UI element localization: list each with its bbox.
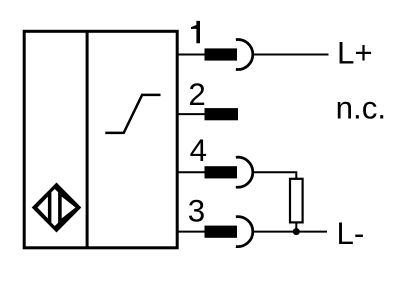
wire pin 1 to L+	[253, 54, 329, 56]
label n.c.	[336, 91, 386, 126]
svg-text:4: 4	[190, 133, 207, 168]
svg-text:L-: L-	[337, 216, 365, 251]
wire load resistor to junction	[295, 222, 297, 231]
load resistor	[290, 179, 303, 223]
inductive sensor symbol (diamond with target marks)	[32, 183, 82, 233]
sensor body outline	[24, 31, 177, 248]
pin 1 stub wire	[177, 54, 205, 56]
pin 1 terminal block	[205, 48, 238, 60]
pin 2 terminal block	[205, 108, 239, 120]
node L+	[337, 35, 373, 70]
switching function curve	[105, 95, 160, 133]
divider line between sensor face and output section	[86, 30, 89, 248]
wire pin 4 to load resistor	[253, 172, 296, 179]
pin 4 label	[190, 133, 207, 168]
pin 2 stub wire	[177, 113, 206, 115]
pin 3 connector arc	[236, 217, 253, 247]
node L-	[337, 216, 365, 251]
svg-text:L+: L+	[337, 35, 373, 70]
pin 1 connector arc	[236, 40, 253, 70]
junction dot	[293, 228, 300, 235]
pin 3 label	[188, 193, 205, 228]
pin 4 connector arc	[236, 157, 253, 187]
svg-text:3: 3	[188, 193, 205, 228]
pin 3 terminal block	[205, 226, 238, 238]
pin 3 stub wire	[177, 231, 205, 233]
pin 4 stub wire	[177, 171, 205, 173]
pin 1 label	[191, 21, 200, 43]
wire pin 3 to L-	[253, 231, 327, 233]
pin 2 label	[188, 77, 205, 112]
svg-text:n.c.: n.c.	[336, 91, 386, 126]
pin 4 terminal block	[205, 166, 238, 178]
svg-text:2: 2	[188, 77, 205, 112]
